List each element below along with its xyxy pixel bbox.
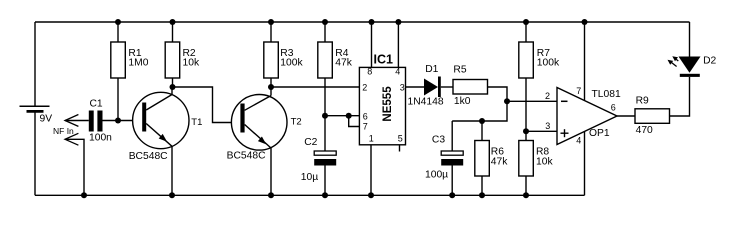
wire C3 bottom (451, 166, 453, 196)
svg-text:3: 3 (545, 121, 550, 131)
svg-text:T1: T1 (191, 117, 202, 128)
svg-text:6: 6 (611, 103, 616, 113)
svg-text:NF In: NF In (53, 126, 74, 136)
svg-text:2: 2 (362, 82, 367, 92)
wire IC1 pin 8 (371, 22, 373, 67)
wire R1 top (117, 22, 119, 42)
node pin 1 ground junction (368, 192, 374, 198)
svg-text:R9: R9 (636, 96, 649, 107)
svg-text:3: 3 (400, 82, 405, 92)
svg-text:BC548C: BC548C (227, 150, 266, 161)
resistor R4 (318, 42, 333, 78)
svg-text:5: 5 (398, 134, 403, 144)
svg-text:D2: D2 (703, 55, 716, 66)
capacitor C2 (314, 151, 336, 166)
wire R2 top (172, 22, 174, 42)
wire C2 bottom (324, 166, 326, 196)
svg-text:C3: C3 (432, 134, 445, 145)
wire R4 top (324, 22, 326, 42)
svg-text:2: 2 (545, 91, 550, 101)
wire IC1 pin 4 (397, 22, 399, 67)
resistor R6 (475, 141, 490, 177)
svg-text:10k: 10k (536, 156, 553, 167)
svg-text:1N4148: 1N4148 (408, 97, 444, 108)
svg-text:C1: C1 (90, 98, 103, 109)
wire junction to pin 6 (325, 115, 359, 117)
svg-text:1: 1 (369, 134, 374, 144)
svg-text:T2: T2 (291, 117, 302, 128)
battery B1 9V (20, 106, 50, 111)
wire battery negative lead (34, 112, 36, 196)
node C2 ground junction (322, 192, 328, 198)
resistor R2 (165, 42, 180, 78)
op-amp plus sign (561, 129, 569, 137)
transistor T1 (133, 87, 189, 195)
wire battery positive lead (34, 22, 36, 106)
svg-text:100k: 100k (537, 58, 560, 69)
wire T1 collector to T2 base (173, 87, 242, 123)
wire R4 bottom (324, 78, 326, 116)
wire op-amp output (617, 115, 635, 117)
resistor R9 (635, 109, 670, 124)
LED D2 light arrows (668, 56, 679, 66)
wire R6 bottom (481, 176, 483, 195)
wire node to op-amp pin 2 (507, 100, 557, 102)
wire R7 top (525, 22, 527, 42)
svg-text:47k: 47k (335, 58, 352, 69)
resistor R3 (264, 42, 279, 78)
svg-text:1k0: 1k0 (454, 96, 471, 107)
wire bottom ground rail (35, 194, 585, 196)
svg-text:7: 7 (576, 86, 581, 96)
svg-text:C2: C2 (304, 137, 317, 148)
node R6 ground junction (479, 192, 485, 198)
svg-text:TL081: TL081 (592, 89, 621, 100)
svg-text:8: 8 (367, 67, 372, 77)
input terminal arrow lower (65, 133, 78, 145)
LED D2 (679, 57, 701, 77)
svg-text:NE555: NE555 (382, 86, 394, 122)
svg-text:6: 6 (363, 112, 368, 122)
node T1 collector junction (170, 84, 176, 90)
wire R6 top (481, 121, 483, 141)
resistor R1 (111, 42, 126, 78)
wire R2 bottom (172, 78, 174, 87)
wire R5 to node (488, 87, 508, 101)
capacitor C3 (441, 151, 463, 166)
wire input upper to C1 (65, 120, 89, 122)
node R5 output junction (504, 98, 510, 104)
wire junction to op-amp pin 3 (526, 130, 557, 132)
wire R8 top (525, 131, 527, 140)
svg-text:100n: 100n (89, 133, 112, 144)
svg-text:7: 7 (363, 122, 368, 132)
wire IC1 pin 3 to D1 (406, 86, 425, 88)
node R3 top rail junction (268, 19, 274, 25)
wire input lower to ground (65, 139, 84, 195)
node R6 top junction (479, 118, 485, 124)
node input ground junction (81, 192, 87, 198)
node R7 rail junction (523, 19, 529, 25)
svg-text:100µ: 100µ (425, 170, 448, 181)
wire C1 to T1 base (103, 120, 143, 122)
node T2 emitter ground junction (268, 192, 274, 198)
node R8 ground junction (523, 192, 529, 198)
wire top supply rail (35, 21, 690, 23)
node pin 7 rail junction (582, 19, 588, 25)
svg-text:1M0: 1M0 (128, 58, 148, 69)
op-amp minus sign (561, 100, 568, 102)
svg-text:9V: 9V (40, 114, 53, 125)
node pin 8 rail junction (369, 19, 375, 25)
wire junction to C2 (324, 116, 326, 151)
wire R3 bottom (270, 78, 272, 87)
input terminal arrow upper (65, 115, 78, 127)
svg-text:BC548C: BC548C (129, 151, 168, 162)
node C3 ground junction (449, 192, 455, 198)
svg-text:10µ: 10µ (301, 172, 318, 183)
wire top rail to D2 anode (689, 22, 691, 57)
wire R9 to D2 cathode (670, 77, 690, 116)
svg-text:D1: D1 (425, 64, 438, 75)
transistor T2 (231, 87, 287, 195)
svg-text:10k: 10k (183, 58, 200, 69)
resistor R7 (519, 42, 534, 78)
op-amp OP1 triangle (557, 88, 617, 145)
node R4 top rail junction (322, 19, 328, 25)
wire op-amp pin 4 (584, 131, 586, 195)
resistor R5 (453, 80, 488, 95)
svg-text:IC1: IC1 (374, 52, 394, 66)
svg-text:R5: R5 (453, 64, 466, 75)
wire R3 top (270, 22, 272, 42)
svg-text:4: 4 (576, 135, 581, 145)
node pins 6 7 tie junction (346, 113, 352, 119)
wire R1 bottom (117, 78, 119, 121)
wire pin 7 tie (349, 116, 360, 127)
wire op-amp pin 7 (584, 22, 586, 101)
node T1 emitter ground junction (169, 192, 175, 198)
wire T2 collector to IC1 pin 2 (271, 86, 359, 88)
node R4 C2 junction (322, 113, 328, 119)
wire C3 top (451, 121, 453, 151)
capacitor C1 (89, 111, 103, 132)
svg-text:4: 4 (395, 67, 400, 77)
svg-text:OP1: OP1 (589, 128, 610, 139)
svg-text:100k: 100k (280, 58, 303, 69)
node C1/R1 junction (115, 118, 121, 124)
node T2 collector junction (268, 84, 274, 90)
diode D1 (424, 77, 441, 98)
svg-text:470: 470 (636, 125, 653, 136)
op-amp IC1 NE555 box (359, 67, 405, 144)
wire IC1 pin 5 stub (399, 145, 401, 152)
node pin 4 rail junction (395, 19, 401, 25)
wire node down to C3 (452, 101, 507, 121)
svg-text:47k: 47k (491, 156, 508, 167)
resistor R8 (519, 141, 534, 177)
node R2 top rail junction (170, 19, 176, 25)
wire R7 bottom (525, 78, 527, 131)
wire R8 bottom (525, 176, 527, 195)
wire D1 to R5 (441, 86, 453, 88)
node R1 top rail junction (115, 19, 121, 25)
wire IC1 pin 1 (370, 145, 372, 196)
node R7 R8 junction (523, 128, 529, 134)
